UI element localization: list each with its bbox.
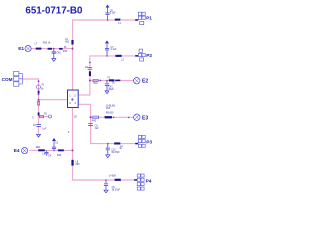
svg-text:E1: E1 bbox=[18, 46, 24, 52]
svg-text:39pF: 39pF bbox=[108, 89, 114, 91]
svg-text:FB 600: FB 600 bbox=[106, 113, 114, 115]
svg-text:L2: L2 bbox=[121, 60, 124, 62]
svg-text:E2: E2 bbox=[142, 78, 148, 84]
svg-text:C2: C2 bbox=[33, 125, 37, 127]
svg-text:1K: 1K bbox=[119, 148, 122, 150]
svg-text:P2: P2 bbox=[146, 53, 152, 59]
svg-text:P1: P1 bbox=[146, 15, 152, 21]
svg-text:1uF: 1uF bbox=[42, 128, 47, 130]
svg-text:1K: 1K bbox=[112, 83, 115, 85]
svg-text:C4: C4 bbox=[48, 156, 52, 158]
svg-text:C3: C3 bbox=[55, 143, 59, 145]
svg-text:1uF: 1uF bbox=[95, 128, 100, 130]
svg-text:L1: L1 bbox=[118, 23, 121, 25]
svg-text:R42: R42 bbox=[92, 120, 97, 122]
svg-text:R41: R41 bbox=[94, 83, 99, 85]
svg-text:F1: F1 bbox=[108, 78, 111, 80]
svg-text:L7: L7 bbox=[35, 44, 38, 46]
svg-text:E3: E3 bbox=[142, 115, 148, 121]
svg-text:E4: E4 bbox=[14, 148, 20, 154]
svg-text:0.1uF: 0.1uF bbox=[111, 49, 117, 51]
svg-text:5: 5 bbox=[68, 132, 70, 134]
svg-text:1A: 1A bbox=[41, 87, 44, 90]
svg-text:5: 5 bbox=[32, 117, 34, 119]
svg-text:C40: C40 bbox=[56, 52, 61, 54]
svg-text:R40: R40 bbox=[63, 51, 68, 53]
svg-text:39.37pF: 39.37pF bbox=[111, 152, 120, 154]
svg-text:FB3 1K: FB3 1K bbox=[43, 43, 51, 45]
svg-text:COM: COM bbox=[2, 77, 13, 82]
svg-text:600: 600 bbox=[76, 164, 81, 166]
svg-text:651-0717-B0: 651-0717-B0 bbox=[25, 5, 82, 16]
svg-text:600: 600 bbox=[65, 41, 70, 43]
svg-text:F1: F1 bbox=[42, 85, 45, 87]
svg-text:P3: P3 bbox=[146, 139, 152, 145]
svg-text:0.1uF: 0.1uF bbox=[110, 13, 116, 15]
svg-text:R43: R43 bbox=[57, 155, 62, 157]
svg-text:P4: P4 bbox=[146, 178, 152, 184]
svg-text:39.37pF: 39.37pF bbox=[112, 189, 121, 191]
svg-text:R1: R1 bbox=[44, 113, 48, 115]
svg-text:L4 600: L4 600 bbox=[109, 175, 117, 177]
svg-text:C8: C8 bbox=[74, 117, 78, 119]
svg-text:1K8: 1K8 bbox=[106, 108, 111, 110]
svg-text:FB4: FB4 bbox=[36, 147, 41, 149]
